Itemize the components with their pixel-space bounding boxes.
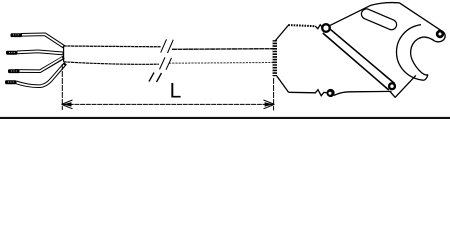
wire W2 [17,51,64,53]
crescent outer arc [397,25,424,81]
wire W2 tip [6,51,18,55]
serrated top edge [288,25,315,26]
wire W3 tip [8,69,20,73]
bottom right corner edge [390,75,416,97]
wire W1 [21,34,64,47]
wire W4 tip [5,80,17,84]
crescent inner arc [411,37,436,75]
break slashes at dimension label [149,73,154,82]
bottom edge right [334,91,392,95]
crescent tip cap [424,75,428,80]
bottom edge zigzag [316,90,328,96]
mating face double line [330,29,394,83]
wire W4 [16,63,66,86]
top edge zigzag [315,25,322,29]
bottom edge left [289,91,317,94]
screw4 on bottom edge [327,89,335,97]
dimension arrow right [265,102,274,106]
boot top diagonal [275,25,289,42]
boot bottom diagonal [277,76,289,92]
wire W3 [15,57,64,71]
dimension extension line right [273,78,275,111]
break slashes top line [161,39,167,52]
crescent top link to screw [435,31,445,42]
svg-text:L: L [170,80,182,103]
cable end face [63,46,65,62]
screw2 top-right [436,30,444,38]
dimension extension line left [61,64,63,110]
dimension arrow left [63,102,72,106]
screw3 bottom [388,82,396,90]
slot hole [367,14,392,25]
cable top line right segment [172,48,273,51]
connector boot serrated face [273,40,277,76]
wire W1 tip [11,33,23,37]
cable bottom line right segment [169,62,273,65]
screw1 top-left [321,23,331,33]
break slashes bottom line [160,57,166,69]
housing top edge [329,3,442,31]
cable bottom line left segment [64,62,159,64]
bottom border [0,117,450,119]
dimension line [63,103,273,105]
cable top line left segment [64,45,161,48]
